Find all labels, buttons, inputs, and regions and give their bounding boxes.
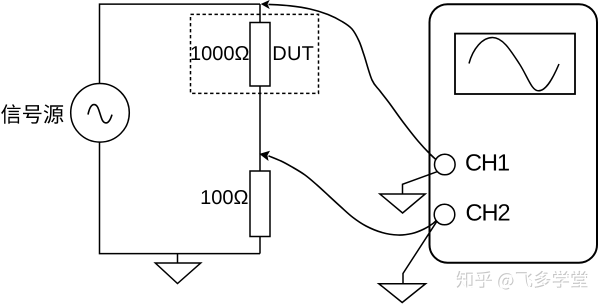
svg-text:1000Ω: 1000Ω: [190, 43, 249, 65]
watermark 知乎 @飞多学堂: [457, 271, 589, 291]
ground for CH2 probe: [379, 221, 437, 303]
svg-text:100Ω: 100Ω: [200, 187, 248, 209]
ground for CH1 probe: [380, 172, 437, 213]
probe wire to CH1: [269, 4, 438, 160]
arrowhead at DUT top node: [262, 1, 269, 8]
wire: DUT top lead: [259, 4, 261, 22]
oscilloscope screen: [455, 34, 575, 94]
DUT dashed box: [191, 14, 319, 93]
probe wire to CH2: [269, 156, 437, 235]
wire: source top to DUT node: [100, 4, 261, 83]
svg-text:CH1: CH1: [465, 149, 509, 175]
CH2 terminal: [434, 204, 455, 225]
resistor 100ohm: [250, 171, 270, 237]
wire: R2 bottom lead: [259, 237, 261, 254]
signal source: [71, 84, 130, 143]
screen sine trace: [469, 38, 559, 91]
svg-text:DUT: DUT: [272, 43, 314, 65]
wire: node between resistors: [259, 86, 261, 171]
CH1 terminal: [435, 154, 456, 175]
ground at bottom rail: [155, 254, 200, 284]
wire: source bottom, bottom rail: [100, 142, 261, 254]
resistor 1000ohm (DUT): [250, 23, 270, 87]
svg-text:CH2: CH2: [466, 200, 510, 226]
arrowhead at mid node: [260, 152, 269, 160]
label 信号源: [1, 104, 63, 124]
oscilloscope body: [430, 4, 598, 263]
